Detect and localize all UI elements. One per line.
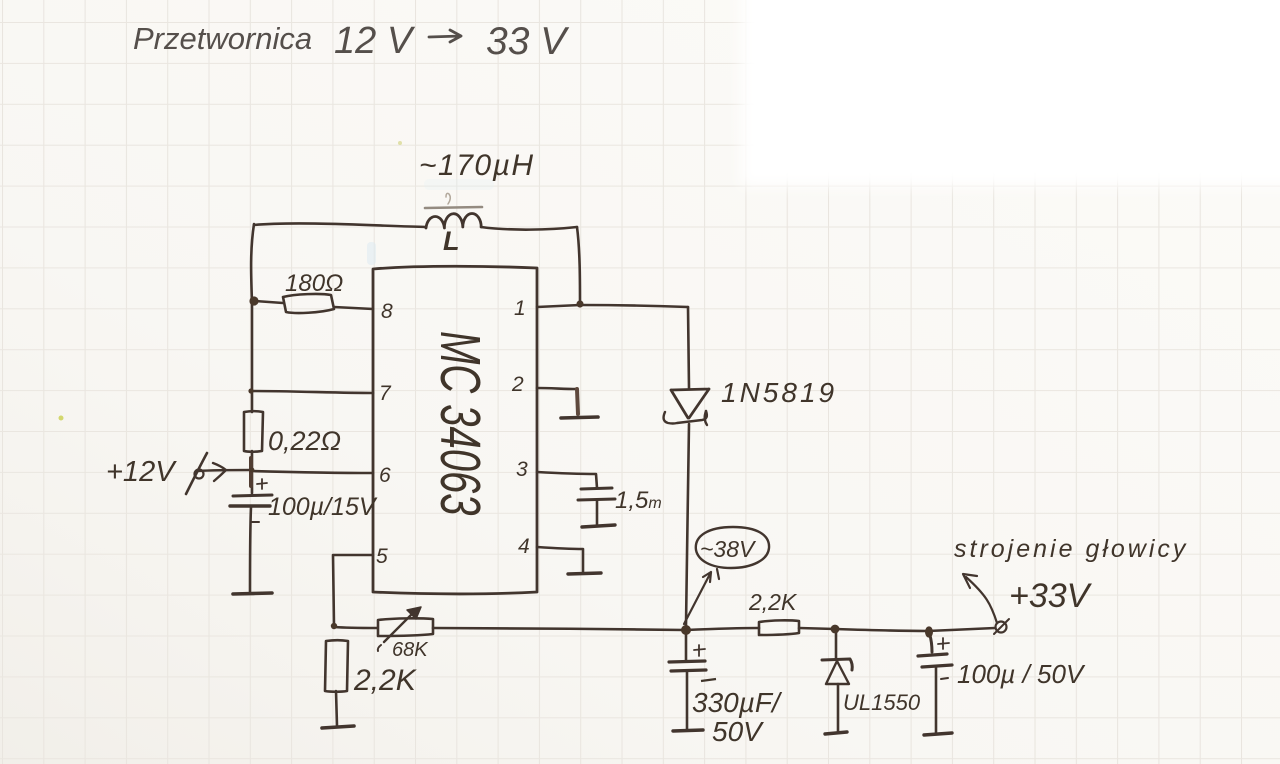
wire 2.2K to UL node [799,628,835,629]
resistor 2.2K horizontal body [759,620,799,635]
inductor faint squiggle [446,193,450,204]
output terminal circle [996,622,1007,633]
curved arrow to strojenie [963,574,997,623]
IC U1 MC34063 box [373,266,537,594]
svg-text:3: 3 [516,458,528,481]
wire down to diode D1 [688,307,689,388]
wire pin1 stub [537,305,580,307]
svg-text:+12V: +12V [106,456,177,488]
wire pot to output node [433,628,685,630]
ground under C1 [233,593,272,594]
svg-text:~170µH: ~170µH [419,149,535,182]
svg-text:L: L [443,226,460,256]
svg-text:1: 1 [514,297,526,320]
wire 2.2K to ground [336,691,337,726]
svg-text:8: 8 [381,300,393,323]
inductor L coil [426,214,481,228]
wire pin4 stub [537,547,583,572]
wire C3 to ground [596,501,599,524]
resistor 2.2K vertical body [325,640,348,692]
wire to output terminal [928,628,995,631]
svg-text:4: 4 [518,535,530,558]
capacitor C4 330u branch [685,632,688,660]
capacitor C5 100u/50V branch [929,632,932,652]
wire C1 to ground [250,507,251,592]
oval ~38V [696,527,769,568]
ground under D2 [825,732,847,734]
wire node to 2.2K horizontal [686,628,759,630]
ground under 2.2K [322,726,354,728]
wire pin5 node to pot [334,627,377,628]
wire diode D1 to output node [686,424,689,625]
C1 minus sign [252,521,259,523]
wire 180R left [255,301,283,303]
svg-text:33 V: 33 V [486,20,570,63]
svg-text:MC 34063: MC 34063 [428,331,490,516]
C1 plus sign [257,479,267,489]
ground pin2 bar [561,417,598,418]
ground pin4 bar [568,573,601,574]
capacitor C1 100u/15V plates [233,495,272,496]
diode D2 UL1550 [835,631,838,658]
ground under C4 [673,730,703,731]
pin2 thick vertical [577,389,578,414]
svg-text:6: 6 [379,464,391,487]
ground under C3 [582,525,615,527]
minus overline above 33 [701,679,716,681]
inductor ferrite bar (pencil) [425,207,482,208]
svg-text:50V: 50V [712,716,764,747]
wire pin2 stub [537,388,576,389]
svg-text:2,2K: 2,2K [748,589,798,615]
wire 180R right to pin8 [334,307,373,309]
svg-text:+33V: +33V [1009,577,1093,615]
svg-text:68K: 68K [392,639,429,661]
resistor 0.22R body [244,411,263,452]
wire top loop right vertical down to node [577,227,580,303]
svg-text:100µ / 50V: 100µ / 50V [957,659,1086,689]
svg-text:2,2K: 2,2K [353,664,418,697]
wire pin7 [251,391,373,393]
svg-text:0,22Ω: 0,22Ω [268,426,341,456]
svg-text:12 V: 12 V [334,20,416,62]
svg-text:Przetwornica: Przetwornica [133,21,312,56]
wire top loop right horizontal [481,227,577,230]
overexposed white zone top-right [741,0,1280,186]
svg-text:2: 2 [511,373,524,396]
ground under C5 [924,733,952,735]
pot 68K wiper arrow [384,612,414,642]
wire UL node to 100u node [835,629,928,631]
wire +12V input to node [197,470,252,471]
wire left bus vertical [251,224,254,470]
svg-text:100µ/15V: 100µ/15V [268,493,378,521]
green fleck [59,416,64,421]
whiteout smudge [367,242,376,265]
wire pin3 stub [537,472,597,488]
wire top loop left horizontal [254,223,426,227]
svg-text:UL1550: UL1550 [843,690,921,715]
wire node to pin6 [252,471,373,473]
potentiometer 68K body [378,618,433,636]
resistor R 180R body [283,294,334,313]
svg-text:strojenie głowicy: strojenie głowicy [954,535,1188,563]
svg-text:180Ω: 180Ω [285,270,343,297]
wire pin5 stub [333,555,373,626]
wire node to C1 [251,471,254,493]
arrow node to oval [684,572,711,624]
+12V input plug symbol [186,453,207,494]
svg-text:7: 7 [379,382,392,405]
title arrow 12V to 33V [429,30,461,42]
capacitor C3 1.5n plates [581,488,612,489]
diode D1 schottky bar [664,411,707,424]
wire pin1 node to diode corner [580,305,688,307]
svg-text:5: 5 [376,545,388,568]
svg-text:1N5819: 1N5819 [721,377,837,408]
diode D1 1N5819 triangle [671,389,709,418]
svg-text:~38V: ~38V [700,536,757,562]
node dots [249,296,258,305]
svg-text:330µF/: 330µF/ [692,687,783,718]
